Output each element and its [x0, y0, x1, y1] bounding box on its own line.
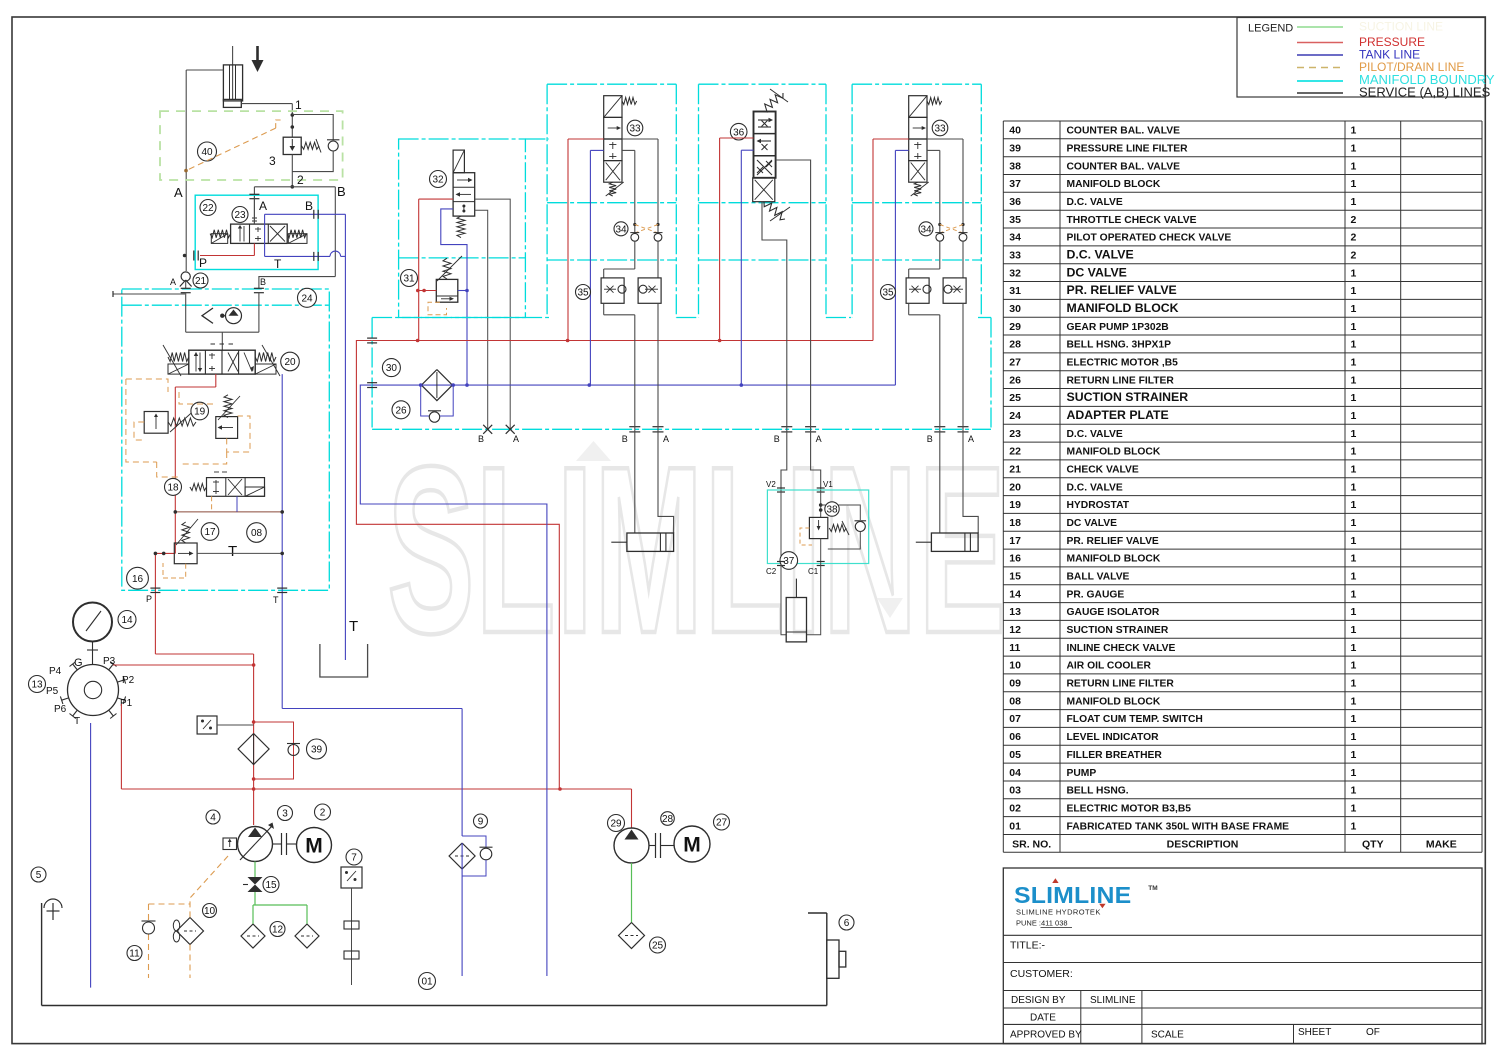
- svg-text:V1: V1: [823, 480, 833, 489]
- svg-text:V2: V2: [766, 480, 776, 489]
- svg-text:BELL HSNG.: BELL HSNG.: [1067, 786, 1129, 797]
- svg-text:12: 12: [272, 925, 284, 936]
- svg-text:SUCTION STRAINER: SUCTION STRAINER: [1067, 390, 1189, 404]
- svg-text:4: 4: [210, 813, 216, 824]
- svg-text:SUCTION STRAINER: SUCTION STRAINER: [1067, 625, 1169, 636]
- svg-text:1: 1: [1351, 481, 1357, 493]
- svg-text:31: 31: [1009, 285, 1021, 297]
- svg-text:26: 26: [1009, 374, 1021, 386]
- svg-text:B: B: [774, 434, 780, 444]
- svg-text:13: 13: [31, 680, 43, 691]
- svg-text:COUNTER BAL. VALVE: COUNTER BAL. VALVE: [1067, 161, 1181, 172]
- svg-text:33: 33: [934, 124, 946, 135]
- svg-text:6: 6: [844, 918, 850, 929]
- svg-text:PR. GAUGE: PR. GAUGE: [1067, 589, 1125, 600]
- svg-text:20: 20: [284, 357, 296, 368]
- svg-text:2: 2: [1351, 250, 1357, 262]
- svg-text:BELL HSNG. 3HPX1P: BELL HSNG. 3HPX1P: [1067, 340, 1172, 351]
- svg-text:1: 1: [1351, 713, 1357, 725]
- svg-text:26: 26: [395, 405, 407, 416]
- svg-text:1: 1: [1351, 374, 1357, 386]
- svg-text:SLIMLINE: SLIMLINE: [1014, 883, 1131, 909]
- svg-text:T: T: [228, 543, 237, 560]
- svg-text:15: 15: [1009, 571, 1021, 583]
- svg-text:MANIFOLD BLOCK: MANIFOLD BLOCK: [1067, 696, 1161, 707]
- svg-text:GEAR PUMP 1P302B: GEAR PUMP 1P302B: [1067, 322, 1169, 333]
- svg-text:16: 16: [132, 574, 144, 585]
- svg-text:1: 1: [1351, 410, 1357, 422]
- svg-text:LEVEL INDICATOR: LEVEL INDICATOR: [1067, 732, 1160, 743]
- svg-text:36: 36: [1009, 196, 1021, 208]
- svg-text:3: 3: [269, 154, 276, 168]
- svg-text:A: A: [968, 434, 974, 444]
- svg-text:1: 1: [295, 98, 302, 112]
- svg-text:1: 1: [1351, 695, 1357, 707]
- svg-text:A: A: [816, 434, 822, 444]
- svg-text:2: 2: [320, 808, 326, 819]
- svg-text:29: 29: [1009, 321, 1021, 333]
- svg-text:P2: P2: [122, 675, 135, 686]
- svg-text:05: 05: [1009, 749, 1021, 761]
- svg-text:TITLE:-: TITLE:-: [1010, 940, 1046, 952]
- svg-text:RETURN LINE FILTER: RETURN LINE FILTER: [1067, 679, 1175, 690]
- svg-text:BALL VALVE: BALL VALVE: [1067, 572, 1130, 583]
- svg-text:1: 1: [1351, 499, 1357, 511]
- svg-text:1: 1: [1351, 802, 1357, 814]
- svg-text:A: A: [663, 434, 669, 444]
- svg-text:B: B: [927, 434, 933, 444]
- svg-text:1: 1: [1351, 517, 1357, 529]
- svg-text:FABRICATED TANK 350L WITH BASE: FABRICATED TANK 350L WITH BASE FRAME: [1067, 821, 1290, 832]
- svg-text:04: 04: [1009, 767, 1021, 779]
- svg-text:PUMP: PUMP: [1067, 768, 1097, 779]
- svg-text:38: 38: [1009, 160, 1021, 172]
- svg-text:DC VALVE: DC VALVE: [1067, 518, 1118, 529]
- svg-text:2: 2: [1351, 232, 1357, 244]
- svg-text:34: 34: [615, 224, 627, 235]
- svg-text:GAUGE ISOLATOR: GAUGE ISOLATOR: [1067, 607, 1160, 618]
- svg-text:36: 36: [733, 127, 745, 138]
- svg-text:SUCTION LINE: SUCTION LINE: [1359, 20, 1443, 34]
- svg-text:10: 10: [1009, 660, 1021, 672]
- svg-text:P: P: [146, 594, 152, 604]
- svg-text:1: 1: [1351, 642, 1357, 654]
- svg-text:1: 1: [1351, 428, 1357, 440]
- svg-text:MANIFOLD BLOCK: MANIFOLD BLOCK: [1067, 554, 1161, 565]
- svg-text:25: 25: [652, 941, 664, 952]
- svg-text:1: 1: [1351, 820, 1357, 832]
- svg-text:DESCRIPTION: DESCRIPTION: [1167, 838, 1239, 850]
- svg-text:M: M: [683, 834, 701, 857]
- svg-text:39: 39: [1009, 143, 1021, 155]
- svg-text:PILOT OPERATED CHECK VALVE: PILOT OPERATED CHECK VALVE: [1067, 233, 1232, 244]
- svg-text:1: 1: [1351, 535, 1357, 547]
- svg-text:LEGEND: LEGEND: [1248, 23, 1293, 35]
- svg-text:12: 12: [1009, 624, 1021, 636]
- svg-text:30: 30: [386, 363, 398, 374]
- svg-text:01: 01: [1009, 820, 1021, 832]
- svg-text:33: 33: [629, 124, 641, 135]
- svg-text:M: M: [305, 835, 323, 858]
- svg-text:1: 1: [1351, 446, 1357, 458]
- svg-text:A: A: [170, 277, 176, 287]
- svg-text:29: 29: [610, 819, 622, 830]
- svg-text:411 038: 411 038: [1041, 919, 1068, 928]
- svg-text:1: 1: [1351, 339, 1357, 351]
- svg-text:1: 1: [1351, 357, 1357, 369]
- svg-text:P6: P6: [54, 704, 67, 715]
- svg-text:D.C. VALVE: D.C. VALVE: [1067, 197, 1123, 208]
- svg-text:SLIMLINE: SLIMLINE: [387, 416, 1007, 682]
- svg-text:1: 1: [1351, 553, 1357, 565]
- svg-text:CHECK VALVE: CHECK VALVE: [1067, 465, 1139, 476]
- svg-text:2: 2: [1351, 214, 1357, 226]
- svg-text:PUNE :: PUNE :: [1016, 919, 1041, 928]
- svg-text:T: T: [273, 595, 279, 605]
- svg-text:06: 06: [1009, 731, 1021, 743]
- svg-text:C1: C1: [808, 567, 819, 576]
- svg-text:SLIMLINE: SLIMLINE: [1090, 995, 1136, 1006]
- svg-text:35: 35: [577, 288, 589, 299]
- svg-text:1: 1: [1351, 785, 1357, 797]
- svg-text:01: 01: [421, 977, 433, 988]
- svg-text:03: 03: [1009, 785, 1021, 797]
- svg-text:33: 33: [1009, 250, 1021, 262]
- svg-text:1: 1: [1351, 196, 1357, 208]
- svg-text:28: 28: [662, 814, 674, 825]
- svg-text:THROTTLE CHECK VALVE: THROTTLE CHECK VALVE: [1067, 215, 1197, 226]
- svg-text:11: 11: [1009, 642, 1020, 654]
- svg-text:FILLER BREATHER: FILLER BREATHER: [1067, 750, 1163, 761]
- svg-text:9: 9: [478, 817, 484, 828]
- svg-text:24: 24: [301, 293, 313, 304]
- svg-text:02: 02: [1009, 802, 1021, 814]
- svg-text:1: 1: [1351, 143, 1357, 155]
- svg-text:ELECTRIC MOTOR ,B5: ELECTRIC MOTOR ,B5: [1067, 358, 1179, 369]
- svg-text:B: B: [305, 199, 313, 213]
- svg-text:DATE: DATE: [1030, 1013, 1056, 1024]
- svg-text:27: 27: [1009, 357, 1021, 369]
- svg-text:30: 30: [1009, 303, 1021, 315]
- svg-text:FLOAT CUM TEMP. SWITCH: FLOAT CUM TEMP. SWITCH: [1067, 714, 1203, 725]
- svg-text:ADAPTER PLATE: ADAPTER PLATE: [1067, 408, 1169, 422]
- svg-text:B: B: [478, 434, 484, 444]
- svg-text:1: 1: [1351, 624, 1357, 636]
- svg-text:11: 11: [129, 949, 140, 960]
- svg-text:1: 1: [1351, 267, 1357, 279]
- svg-text:P5: P5: [46, 686, 59, 697]
- svg-text:22: 22: [1009, 446, 1021, 458]
- svg-text:35: 35: [1009, 214, 1021, 226]
- svg-text:18: 18: [1009, 517, 1021, 529]
- svg-text:OF: OF: [1366, 1027, 1380, 1038]
- svg-text:TM: TM: [1148, 885, 1157, 892]
- svg-text:27: 27: [716, 818, 728, 829]
- svg-text:3: 3: [282, 809, 288, 820]
- svg-text:21: 21: [195, 276, 207, 287]
- svg-text:1: 1: [1351, 125, 1357, 137]
- svg-text:INLINE CHECK VALVE: INLINE CHECK VALVE: [1067, 643, 1176, 654]
- svg-text:A: A: [513, 434, 519, 444]
- svg-text:B: B: [337, 184, 346, 199]
- svg-text:1: 1: [1351, 767, 1357, 779]
- svg-text:P4: P4: [49, 666, 62, 677]
- svg-text:SCALE: SCALE: [1151, 1030, 1184, 1041]
- svg-text:2: 2: [297, 173, 304, 187]
- svg-text:09: 09: [1009, 678, 1021, 690]
- svg-text:14: 14: [1009, 588, 1021, 600]
- svg-text:08: 08: [1009, 695, 1021, 707]
- svg-text:1: 1: [1351, 749, 1357, 761]
- svg-text:19: 19: [194, 407, 206, 418]
- svg-text:5: 5: [36, 870, 42, 881]
- svg-text:1: 1: [1351, 588, 1357, 600]
- svg-text:PR. RELIEF VALVE: PR. RELIEF VALVE: [1067, 536, 1159, 547]
- svg-text:B: B: [260, 277, 266, 287]
- svg-text:1: 1: [1351, 303, 1357, 315]
- svg-text:21: 21: [1009, 464, 1021, 476]
- svg-text:1: 1: [1351, 160, 1357, 172]
- svg-text:T: T: [274, 257, 282, 271]
- svg-text:40: 40: [1009, 125, 1021, 137]
- svg-text:ELECTRIC MOTOR B3,B5: ELECTRIC MOTOR B3,B5: [1067, 803, 1192, 814]
- svg-text:D.C. VALVE: D.C. VALVE: [1067, 248, 1134, 262]
- svg-text:07: 07: [1009, 713, 1021, 725]
- svg-text:14: 14: [121, 615, 133, 626]
- svg-text:20: 20: [1009, 481, 1021, 493]
- svg-text:DESIGN BY: DESIGN BY: [1011, 995, 1066, 1006]
- svg-text:HYDROSTAT: HYDROSTAT: [1067, 500, 1130, 511]
- svg-text:17: 17: [1009, 535, 1021, 547]
- svg-text:1: 1: [1351, 731, 1357, 743]
- svg-text:MANIFOLD BLOCK: MANIFOLD BLOCK: [1067, 447, 1161, 458]
- svg-text:25: 25: [1009, 392, 1021, 404]
- svg-text:1: 1: [1351, 571, 1357, 583]
- svg-text:1: 1: [1351, 321, 1357, 333]
- svg-text:23: 23: [1009, 428, 1021, 440]
- svg-text:13: 13: [1009, 606, 1021, 618]
- svg-text:P: P: [199, 256, 207, 270]
- svg-text:18: 18: [167, 483, 179, 494]
- svg-text:38: 38: [826, 505, 838, 516]
- svg-text:40: 40: [201, 147, 213, 158]
- svg-text:APPROVED BY: APPROVED BY: [1010, 1030, 1082, 1041]
- svg-text:COUNTER BAL. VALVE: COUNTER BAL. VALVE: [1067, 126, 1181, 137]
- svg-text:1: 1: [1351, 660, 1357, 672]
- svg-text:CUSTOMER:: CUSTOMER:: [1010, 968, 1073, 980]
- svg-text:08: 08: [251, 528, 263, 539]
- svg-text:24: 24: [1009, 410, 1021, 422]
- svg-text:RETURN LINE FILTER: RETURN LINE FILTER: [1067, 375, 1175, 386]
- svg-text:15: 15: [265, 880, 277, 891]
- svg-text:MANIFOLD BLOCK: MANIFOLD BLOCK: [1067, 301, 1179, 315]
- svg-text:32: 32: [432, 175, 444, 186]
- svg-text:1: 1: [1351, 285, 1357, 297]
- svg-text:SR. NO.: SR. NO.: [1012, 838, 1051, 850]
- svg-text:31: 31: [403, 274, 415, 285]
- svg-text:A: A: [174, 185, 183, 200]
- svg-text:17: 17: [204, 527, 216, 538]
- svg-text:C2: C2: [766, 567, 777, 576]
- svg-text:1: 1: [1351, 606, 1357, 618]
- svg-text:PRESSURE LINE FILTER: PRESSURE LINE FILTER: [1067, 144, 1189, 155]
- svg-text:QTY: QTY: [1362, 838, 1384, 850]
- svg-text:23: 23: [234, 210, 246, 221]
- svg-text:MAKE: MAKE: [1426, 838, 1457, 850]
- svg-text:SLIMLINE HYDROTEK: SLIMLINE HYDROTEK: [1016, 908, 1101, 917]
- svg-text:1: 1: [1351, 392, 1357, 404]
- svg-text:PR. RELIEF VALVE: PR. RELIEF VALVE: [1067, 283, 1177, 297]
- svg-text:32: 32: [1009, 267, 1021, 279]
- svg-text:16: 16: [1009, 553, 1021, 565]
- svg-text:1: 1: [1351, 464, 1357, 476]
- svg-text:37: 37: [1009, 178, 1021, 190]
- svg-text:T: T: [349, 618, 358, 635]
- svg-text:10: 10: [204, 906, 216, 917]
- svg-text:39: 39: [311, 745, 323, 756]
- svg-text:B: B: [622, 434, 628, 444]
- svg-text:1: 1: [1351, 678, 1357, 690]
- svg-text:28: 28: [1009, 339, 1021, 351]
- svg-text:34: 34: [920, 224, 932, 235]
- svg-text:7: 7: [351, 853, 357, 864]
- svg-text:1: 1: [1351, 178, 1357, 190]
- svg-text:DC VALVE: DC VALVE: [1067, 265, 1127, 279]
- svg-text:A: A: [259, 199, 267, 213]
- svg-text:T: T: [74, 716, 80, 727]
- svg-text:34: 34: [1009, 232, 1021, 244]
- svg-text:SERVICE (A,B) LINES: SERVICE (A,B) LINES: [1359, 84, 1491, 99]
- svg-text:22: 22: [202, 203, 214, 214]
- svg-text:35: 35: [882, 288, 894, 299]
- svg-text:MANIFOLD BLOCK: MANIFOLD BLOCK: [1067, 179, 1161, 190]
- svg-text:D.C. VALVE: D.C. VALVE: [1067, 429, 1123, 440]
- svg-text:SHEET: SHEET: [1298, 1027, 1331, 1038]
- svg-text:AIR OIL COOLER: AIR OIL COOLER: [1067, 661, 1152, 672]
- svg-text:D.C. VALVE: D.C. VALVE: [1067, 482, 1123, 493]
- svg-text:19: 19: [1009, 499, 1021, 511]
